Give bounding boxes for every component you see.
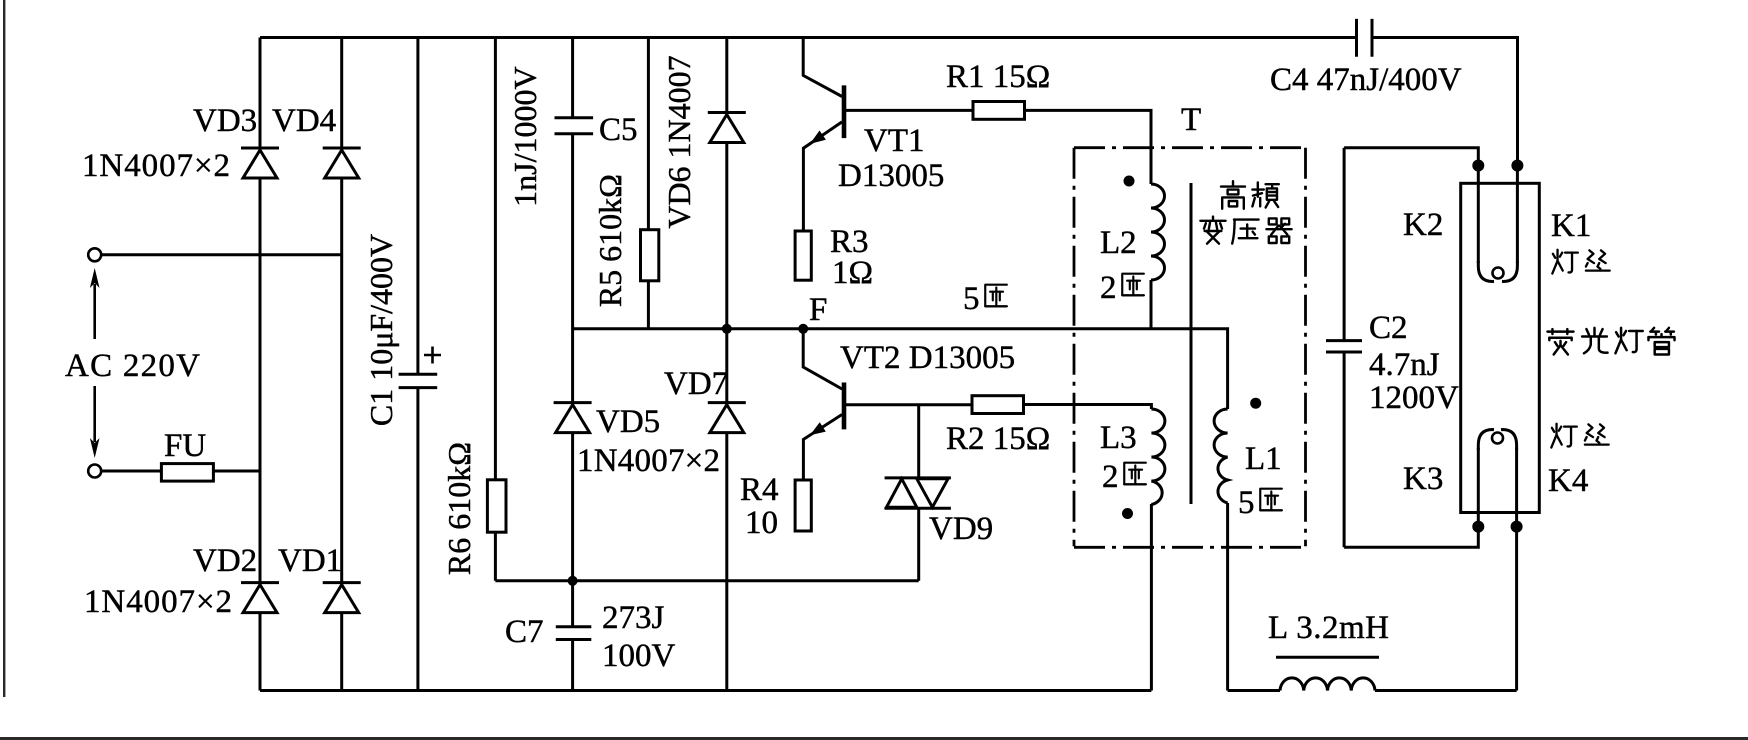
fluorescent tube body [1461, 183, 1540, 512]
L2 column lower stub [1150, 280, 1153, 329]
wire VT1 base to R1 to L2 [846, 110, 1151, 184]
capacitor C7 [556, 627, 592, 640]
svg-text:10: 10 [745, 505, 778, 541]
svg-text:VD2: VD2 [193, 543, 257, 579]
capacitor C1 [399, 347, 441, 388]
svg-text:L3: L3 [1100, 420, 1137, 456]
svg-text:FU: FU [164, 428, 206, 464]
capacitor C5 [555, 118, 594, 134]
C1 column [416, 38, 419, 691]
junction dot VD6-F wire [722, 324, 732, 334]
terminal bottom [88, 465, 101, 478]
diode VD7 [708, 403, 746, 433]
VD3/VD2 column [259, 38, 262, 691]
diode VD6 [708, 113, 746, 143]
bottom rail right segment L1 to K4 [1228, 689, 1517, 692]
resistor R2 [972, 396, 1024, 414]
svg-text:1nJ/1000V: 1nJ/1000V [507, 66, 543, 206]
core line [1190, 183, 1193, 504]
svg-text:C7: C7 [505, 614, 544, 650]
svg-text:R6 610kΩ: R6 610kΩ [441, 442, 477, 575]
wire AC top to VD4 column [101, 253, 342, 256]
transistor VT2 [803, 329, 844, 480]
svg-text:R2 15Ω: R2 15Ω [946, 421, 1050, 457]
label yingguangdengguan [1547, 328, 1674, 355]
arrow up [93, 284, 96, 339]
resistor R4 [795, 480, 811, 531]
svg-text:VD4: VD4 [272, 103, 336, 139]
label dengsi top [1552, 250, 1609, 274]
resistor R1 [973, 102, 1025, 120]
diode VD5 [554, 403, 592, 433]
C2 column [1343, 148, 1346, 548]
R6 column [494, 38, 497, 581]
VD9 column [917, 405, 920, 581]
polarity dot L3 [1122, 508, 1133, 519]
svg-text:L 3.2mH: L 3.2mH [1268, 610, 1389, 646]
L3 column lower stub to bottom rail [1150, 504, 1153, 691]
svg-text:C5: C5 [599, 112, 638, 148]
svg-text:K2: K2 [1403, 207, 1443, 243]
diode VD2 [241, 583, 279, 613]
svg-text:1N4007×2: 1N4007×2 [82, 148, 230, 184]
wire C2 bottom to K3 [1344, 528, 1478, 547]
svg-text:5: 5 [963, 281, 980, 317]
lamp terminal dots bottom [1472, 521, 1484, 533]
svg-text:VT2 D13005: VT2 D13005 [840, 340, 1015, 376]
label gaopin bianyaqi [1200, 181, 1291, 243]
label 2za L2 [1100, 270, 1144, 306]
svg-text:VD9: VD9 [929, 511, 993, 547]
winding L2 [1151, 184, 1165, 280]
svg-text:273J: 273J [602, 600, 665, 636]
label 2za L3 [1102, 459, 1146, 495]
wire C2 top to K2 [1344, 148, 1478, 164]
bottom rail left [260, 689, 1151, 692]
winding L1 [1214, 409, 1228, 503]
transistor VT1 [803, 38, 844, 232]
polarity dot L2 [1124, 176, 1135, 187]
terminal top [88, 248, 101, 261]
resistor R6 [487, 480, 506, 532]
transformer box (dash-dot) [1074, 148, 1306, 548]
svg-text:VT1: VT1 [864, 123, 925, 159]
label 5za wire [963, 281, 1007, 317]
node F horizontal wire (5匝 wire) [573, 329, 1228, 409]
left page border line [3, 0, 5, 697]
wire top rail left part [260, 36, 1357, 39]
C5/VD5/C7 column [571, 38, 574, 691]
svg-text:2: 2 [1102, 459, 1119, 495]
svg-text:VD3: VD3 [193, 103, 257, 139]
polarity dot L1 [1250, 398, 1261, 409]
bottom page border band [0, 737, 1748, 740]
filament K3-K4 bottom [1478, 430, 1516, 527]
R5 column [647, 38, 650, 329]
svg-text:F: F [809, 292, 827, 328]
svg-text:1200V: 1200V [1369, 380, 1459, 416]
inductor core line [1276, 656, 1379, 659]
svg-text:VD1: VD1 [278, 543, 342, 579]
svg-text:1N4007×2: 1N4007×2 [84, 584, 232, 620]
label 5za L1 [1238, 485, 1282, 521]
svg-text:4.7nJ: 4.7nJ [1369, 347, 1440, 383]
svg-text:2: 2 [1100, 270, 1117, 306]
wire VT2 base to R2 to L3 [846, 405, 1151, 410]
svg-text:VD6 1N4007: VD6 1N4007 [661, 55, 697, 228]
VD4/VD1 column [340, 38, 343, 691]
resistor R5 [641, 230, 659, 281]
diode VD1 [323, 583, 361, 613]
inductor L [1280, 678, 1375, 691]
capacitor C2 [1326, 341, 1362, 352]
diode VD3 [241, 148, 279, 178]
svg-text:C2: C2 [1369, 310, 1408, 346]
svg-text:VD5: VD5 [596, 404, 660, 440]
arrow down [93, 386, 96, 442]
wire top rail right part to lamp corner [1372, 38, 1518, 165]
svg-text:C1 10μF/400V: C1 10μF/400V [363, 234, 399, 426]
svg-text:R4: R4 [740, 472, 779, 508]
svg-text:L1: L1 [1245, 441, 1282, 477]
winding L3 [1151, 409, 1165, 505]
filament K2-K1 top [1478, 166, 1517, 282]
svg-text:1N4007×2: 1N4007×2 [577, 443, 720, 479]
svg-text:VD7: VD7 [664, 366, 728, 402]
svg-text:T: T [1181, 102, 1201, 138]
wire K4 down to bottom rail [1515, 528, 1518, 691]
junction dot R6 wire [568, 576, 578, 586]
svg-text:100V: 100V [602, 638, 676, 674]
wire R6 bottom horizontal to VD9 [495, 579, 918, 582]
svg-text:L2: L2 [1100, 225, 1137, 261]
svg-text:1Ω: 1Ω [832, 255, 873, 291]
fuse FU [161, 464, 213, 482]
wire FU line to VD3 column [101, 470, 260, 473]
svg-text:R1 15Ω: R1 15Ω [946, 59, 1050, 95]
svg-text:K1: K1 [1551, 208, 1591, 244]
svg-text:K3: K3 [1403, 461, 1443, 497]
svg-text:5: 5 [1238, 485, 1255, 521]
L1 column lower stub [1226, 503, 1229, 691]
resistor R3 [795, 231, 811, 280]
svg-text:D13005: D13005 [838, 158, 944, 194]
svg-text:C4 47nJ/400V: C4 47nJ/400V [1270, 62, 1462, 98]
svg-text:R5 610kΩ: R5 610kΩ [592, 174, 628, 307]
lamp terminal dots top [1472, 160, 1484, 172]
capacitor C4 [1357, 19, 1373, 57]
label dengsi bottom [1551, 424, 1608, 448]
VD6/VD7 column [725, 38, 728, 691]
diode VD4 [323, 148, 361, 178]
diac VD9 [885, 478, 951, 508]
junction dot node F [798, 324, 808, 334]
svg-text:K4: K4 [1548, 463, 1588, 499]
svg-text:AC 220V: AC 220V [65, 348, 200, 384]
